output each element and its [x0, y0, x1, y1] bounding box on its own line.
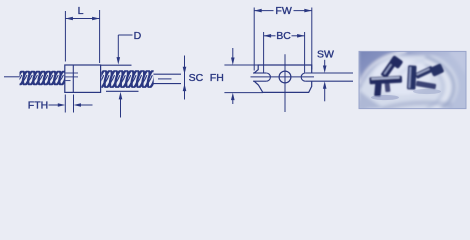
svg-text:FTH: FTH [28, 100, 48, 112]
side view: screw tip cylinder bottom line [154, 83, 182, 85]
side view: thread envelope bottom line [106, 90, 139, 92]
dimension L: dimension line with arrows [65, 18, 99, 20]
side view: thread lines through flange hole [65, 72, 78, 74]
front view: horizontal centerline [251, 76, 315, 78]
dimension FH: extension lines [224, 64, 258, 66]
side view: retainer block body outline [65, 65, 101, 92]
dimension FW: extension lines [253, 8, 255, 71]
dimension BC: extension lines [263, 32, 265, 73]
photo: top band right of rim [400, 50, 466, 56]
svg-text:FW: FW [275, 5, 291, 17]
front view: right slot semicircle [301, 73, 305, 81]
dimension FTH: extension lines [64, 95, 66, 113]
photo: screw part B (lying, right) [407, 63, 445, 90]
side view: screw tip middle line [158, 78, 172, 80]
side view: thread envelope top line (diameter D) [101, 64, 132, 66]
front view: right slot top line / SW extension [305, 72, 353, 74]
front view: left slot top line [253, 72, 266, 74]
svg-text:L: L [78, 5, 84, 17]
dimension FH: dimension line with arrows [232, 48, 234, 60]
dimension BC: dimension line with arrows [264, 35, 276, 37]
dimension SC: dimension line with arrows [184, 56, 186, 100]
photo: upper-right light corner [450, 51, 466, 76]
dimension FTH: dimension lines with arrows [49, 104, 60, 106]
photo: bottom shadow arc [382, 103, 452, 109]
front view: flange outline bottom edge with chamfers [254, 81, 312, 92]
photo: right side concentric rim rings [350, 53, 454, 121]
front view: flange outline top edge with chamfers [254, 65, 312, 73]
photo: product photograph (blue duotone) [350, 46, 466, 122]
photo: screw part A (standing, left) [369, 55, 403, 97]
side view: screw tip cylinder top line [154, 73, 182, 75]
photo: bottom-left outside rim [359, 90, 384, 109]
front view: right slot bottom line / SW extension [305, 80, 353, 82]
photo: upper-left rim highlight [360, 52, 406, 85]
side view: left threaded section (screw thread) [16, 71, 67, 86]
front view: center screw hole circle [279, 71, 291, 83]
side view: flange face inner line [72, 65, 74, 92]
front view: left slot semicircle [266, 73, 270, 81]
svg-text:FH: FH [210, 72, 224, 84]
dimension L: extension lines [64, 11, 66, 62]
photo: upper-left dark corner outside disc rim [359, 46, 409, 92]
photo: main disc [354, 50, 458, 122]
dimension D: lower arrow [120, 97, 122, 118]
dimension FW: dimension line with arrows [254, 10, 273, 12]
photo: soft shadows under parts [371, 95, 399, 100]
svg-text:BC: BC [276, 30, 291, 42]
svg-text:SC: SC [189, 72, 204, 84]
front view: vertical centerline [284, 54, 286, 112]
front view: left slot bottom line [253, 80, 266, 82]
svg-text:SW: SW [317, 49, 334, 61]
dimension SW: dimension line with arrows [324, 60, 326, 67]
side view: screw centerline (left stub) [4, 76, 20, 78]
side view: right knurled/threaded section [98, 70, 157, 89]
svg-text:D: D [134, 30, 142, 42]
